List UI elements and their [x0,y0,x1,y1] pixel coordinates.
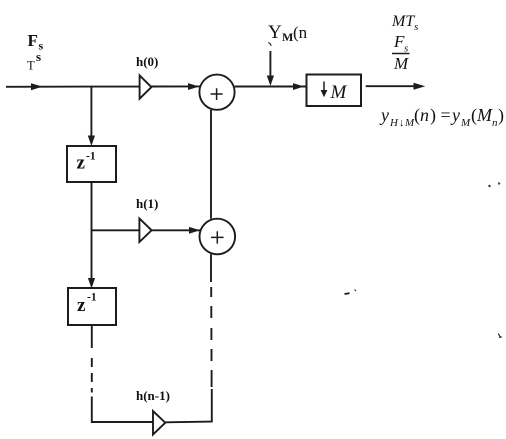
arrowhead YM onto main wire [267,76,274,87]
svg-text:h(0): h(0) [136,54,158,69]
svg-text:s: s [404,43,408,55]
arrowhead into summer S1 [188,83,199,90]
wire below summer S2 (solid part) [210,254,212,282]
summer S2 circle [200,219,236,255]
delay z1 label [77,151,96,174]
svg-text:MT: MT [391,13,415,30]
wire gain h(n-1) to right riser [165,421,212,424]
svg-text:z: z [77,153,86,174]
wire below delay z2 (solid part) [91,325,93,348]
svg-text:M: M [476,105,493,125]
label Fs (input sample rate) [28,31,44,53]
svg-text:Y: Y [268,22,282,43]
summer S2 plus sign [211,231,224,243]
wire summer S1 to decimator [235,86,307,88]
delay box z^-1 (first) [67,146,116,182]
wire branch down to first delay [90,87,92,140]
svg-text:-1: -1 [86,151,96,163]
wire right riser bottom (solid) [211,389,213,422]
label Fs/M fraction [393,32,409,73]
svg-text:T: T [27,59,35,73]
stray dot marks right middle [488,185,490,187]
stray comma mark under YM label [268,43,271,46]
svg-text:): ) [498,105,504,126]
summer S1 plus sign [211,88,223,100]
svg-text:h(1): h(1) [136,196,158,211]
svg-text:H: H [389,117,399,129]
svg-text:n: n [420,105,429,125]
svg-text:) =: ) = [430,105,451,126]
wire gain h(0) to summer S1 [151,85,200,87]
svg-text:M: M [282,30,293,44]
stray dash mark center [345,292,350,295]
wire right riser (dashed part) [210,287,212,387]
svg-text:M: M [330,82,348,103]
delay z2 label [77,292,97,317]
wire branch to gain h(1) [92,229,140,231]
label Ts (input period) [27,49,41,73]
gain triangle h(1) [139,219,151,243]
decimator box ↓M [307,75,362,107]
input arrowhead [31,83,43,90]
svg-text:(n: (n [293,23,308,42]
delay box z^-1 (second) [68,288,116,325]
svg-text:↓: ↓ [399,117,405,129]
summer S1 circle [199,75,234,110]
wire input horizontal main line [6,86,140,88]
arrowhead into decimator [293,83,304,90]
arrowhead into summer S2 [189,227,200,234]
wire output arrow [366,85,419,87]
stray hook mark lower right [499,334,502,338]
arrowhead into delay z1 [88,136,95,147]
label YM(n [268,22,308,44]
gain triangle h(n-1) [153,411,165,435]
wire summer S1 down to summer S2 [210,110,212,219]
label output equation y_HM(n) = y_M(M_n) [379,105,504,129]
gain triangle h(0) [140,75,152,98]
wire delay z1 down to delay z2 [91,182,93,283]
svg-text:z: z [77,295,86,316]
wire below delay z2 (dashed part) [91,358,93,393]
svg-text:M: M [393,54,409,73]
wire YM down arrow [269,51,271,79]
label MTs (output period) [391,13,418,33]
svg-text:h(n-1): h(n-1) [136,388,170,403]
wire gain h(1) to summer S2 [152,229,200,231]
fraction bar [392,53,410,55]
svg-text:-1: -1 [87,292,97,304]
svg-text:y: y [450,105,460,125]
svg-text:s: s [414,21,418,33]
svg-text:F: F [28,31,38,50]
arrowhead into delay z2 [88,278,95,289]
svg-text:s: s [36,49,41,64]
svg-text:M: M [460,117,471,129]
wire left bottom corner (solid) [92,397,153,423]
output arrowhead [414,83,426,90]
decimator down-arrow glyph [321,82,328,98]
svg-text:y: y [379,105,389,125]
